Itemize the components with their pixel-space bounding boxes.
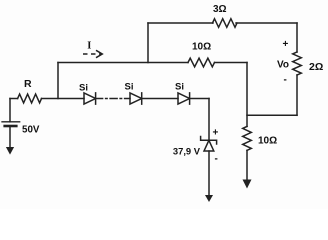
resistor 10ohm vertical (243, 126, 252, 150)
svg-text:-: - (284, 75, 287, 86)
svg-text:Vo: Vo (277, 60, 289, 71)
wire left drop (57, 63, 59, 99)
wire D3 to corner (190, 98, 209, 100)
wire zener branch drop (208, 99, 210, 141)
svg-text:37,9 V: 37,9 V (173, 146, 201, 157)
wire battery drop (9, 99, 11, 122)
wire D1 to D2 dash-dot (96, 98, 130, 100)
resistor 2ohm vertical (293, 52, 302, 75)
diode D2 Si (130, 93, 142, 104)
wire zener to ground (208, 151, 210, 196)
wire R to diode D1 (42, 98, 85, 100)
wire middle left segment (58, 62, 188, 64)
diode D3 Si (178, 93, 190, 104)
resistor 10ohm horizontal (188, 58, 214, 67)
svg-text:Si: Si (79, 83, 88, 94)
wire bottom left (10, 98, 18, 100)
svg-text:10Ω: 10Ω (258, 136, 277, 147)
svg-text:R: R (24, 78, 32, 90)
wire right branch bottom (296, 75, 298, 115)
wire top left segment (148, 22, 213, 24)
svg-text:3Ω: 3Ω (213, 4, 227, 15)
svg-text:I: I (87, 41, 91, 52)
svg-text:+: + (213, 128, 219, 139)
resistor R (18, 94, 42, 103)
svg-text:Si: Si (175, 82, 184, 93)
wire top right segment (236, 22, 297, 24)
battery 50V short plate (5, 125, 17, 128)
wire 10ohm to ground (246, 150, 248, 180)
svg-text:-: - (215, 154, 218, 165)
zener diode DZ (201, 137, 217, 145)
wire riser node A (147, 23, 149, 63)
ground arrow zener (205, 195, 213, 202)
current arrow I dashed line (83, 53, 101, 55)
ground arrow battery (6, 147, 14, 155)
svg-text:+: + (283, 39, 289, 50)
svg-text:50V: 50V (22, 125, 40, 136)
wire battery to ground (9, 127, 11, 148)
wire bottom right horizontal (247, 114, 297, 116)
wire D2 to D3 (142, 98, 178, 100)
wire middle right segment (215, 62, 248, 64)
diode D1 Si (84, 93, 96, 104)
wire middle-right drop (246, 63, 248, 127)
ground arrow 10ohm (243, 180, 252, 189)
svg-text:Si: Si (125, 82, 134, 93)
battery 50V long plate (2, 121, 20, 123)
wire right branch top (296, 23, 298, 52)
svg-text:2Ω: 2Ω (309, 61, 323, 73)
resistor 3ohm (213, 19, 238, 28)
svg-text:10Ω: 10Ω (192, 42, 211, 53)
